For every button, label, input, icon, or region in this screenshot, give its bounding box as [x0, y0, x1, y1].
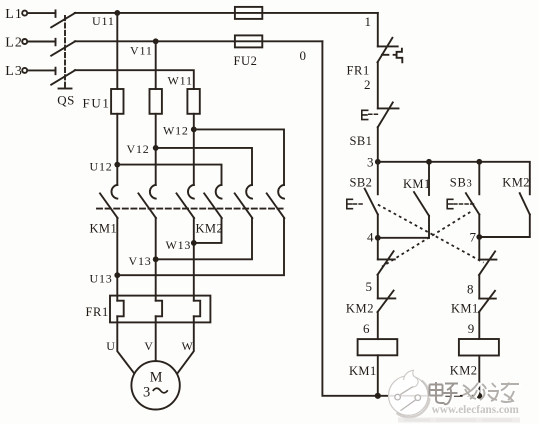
svg-text:3: 3: [367, 154, 374, 169]
svg-text:U13: U13: [90, 272, 113, 286]
svg-text:SB2: SB2: [350, 176, 373, 190]
node bottom rail junction b: [476, 393, 482, 399]
wire KM2 pole1 to W13: [194, 218, 222, 243]
button SB3 upper terminal: [478, 162, 480, 195]
relay FR1 NC contact tick: [382, 54, 389, 56]
wire U phase contact to FR: [116, 218, 118, 301]
svg-text:7: 7: [470, 230, 477, 245]
watermark url: [432, 402, 520, 417]
svg-text:1: 1: [365, 14, 372, 29]
node 7 junction: [476, 234, 482, 240]
svg-text:KM1: KM1: [403, 177, 431, 191]
svg-text:2: 2: [364, 77, 371, 92]
svg-text:V12: V12: [127, 142, 150, 156]
svg-text:W: W: [182, 339, 194, 353]
button SB2 actuator E: [347, 199, 353, 208]
button SB1 blade: [378, 102, 393, 127]
wire L1 to right rail: [75, 12, 378, 14]
wire right rail top: [377, 13, 379, 47]
node W13 junction: [191, 240, 197, 246]
wire W phase contact to FR: [193, 218, 195, 301]
relay FR1 NC contact fixed bar: [378, 45, 398, 47]
svg-text:9: 9: [468, 321, 475, 336]
svg-text:L3: L3: [5, 64, 23, 79]
wire KM2 coil to rail: [478, 356, 480, 396]
relay FR1 heater element U: [117, 301, 123, 317]
relay FR1 heater element V: [156, 301, 162, 317]
wire rail FR1 to SB1: [377, 62, 379, 108]
button SB2 upper terminal: [377, 162, 379, 195]
wire KM2 pole3 to U13: [117, 218, 284, 275]
svg-text:SB3: SB3: [450, 176, 473, 190]
button SB3 NC blade: [378, 251, 394, 275]
wire V phase fuse to contact: [155, 114, 157, 185]
node 3 junction a: [375, 159, 381, 165]
node V12 junction: [153, 145, 159, 151]
relay FR1 heater element W: [194, 301, 200, 317]
svg-text:6: 6: [363, 321, 370, 336]
button SB3 actuator E: [447, 199, 453, 208]
button SB2 NO blade: [365, 189, 378, 215]
wire L3 input: [28, 69, 56, 71]
svg-text:FR1: FR1: [86, 305, 109, 319]
contact KM1 aux NO upper terminal: [428, 162, 430, 195]
node U11 junction: [114, 10, 120, 16]
button SB2 actuator dashes: [354, 203, 365, 205]
svg-text:U12: U12: [90, 159, 113, 173]
wire U FR to motor: [117, 316, 133, 372]
svg-text:U11: U11: [92, 14, 115, 28]
switch QS linkage foot bar: [59, 88, 72, 90]
wire node 8: [478, 275, 480, 299]
svg-text:8: 8: [467, 282, 474, 297]
node bottom rail junction a: [375, 393, 381, 399]
node U12 junction: [114, 162, 120, 168]
wire U phase fuse to contact: [116, 114, 118, 185]
svg-text:W12: W12: [163, 124, 189, 138]
wire node 6: [377, 312, 379, 339]
wire node7 to NC 7-8: [478, 237, 480, 260]
svg-text:4: 4: [367, 230, 374, 245]
svg-text:FR1: FR1: [347, 64, 370, 78]
interlock dotted SB2 to right NC: [378, 205, 484, 263]
svg-text:3: 3: [143, 385, 150, 401]
svg-text:FU1: FU1: [83, 96, 111, 111]
fuse FU2a body: [235, 7, 262, 19]
wire KM2 pole2 to V13: [156, 218, 252, 259]
watermark brand glyphs: [431, 383, 521, 405]
node V13 junction: [153, 256, 159, 262]
switch QS pole 2 blade: [51, 41, 75, 55]
relay FR1 thermal actuator symbol: [394, 49, 403, 63]
contactor KM1 pole1 contact: [100, 185, 118, 218]
svg-text:KM1: KM1: [90, 221, 118, 235]
svg-text:KM1: KM1: [349, 364, 377, 378]
svg-text:SB1: SB1: [350, 134, 373, 148]
motor M 3~ circle: [131, 361, 179, 409]
switch QS pole 3 blade: [51, 70, 75, 85]
wire L2 to 0 rail: [75, 40, 323, 42]
contact KM1 NC blade: [479, 291, 495, 312]
contact KM2 NC blade: [378, 291, 394, 312]
svg-text:L1: L1: [5, 7, 23, 22]
svg-text:KM2: KM2: [346, 301, 374, 315]
node L2 terminal circle: [22, 39, 27, 44]
wire L2 input: [28, 41, 56, 43]
button SB2 NC blade: [479, 251, 495, 275]
wire V12 feed to KM2 pole2: [156, 148, 252, 185]
contactor KM2 pole2 contact: [235, 185, 253, 218]
svg-text:W13: W13: [166, 238, 192, 252]
wire W phase fuse to contact: [193, 114, 195, 185]
svg-text:KM2: KM2: [196, 221, 224, 235]
wire KM1 aux to node 4: [428, 216, 430, 238]
interlock dotted SB3 to left NC: [382, 212, 470, 267]
svg-text:www.elecfans.com: www.elecfans.com: [432, 402, 519, 416]
wire SB3 to node 7: [478, 215, 480, 238]
QS pole 1 fixed contact tick: [55, 10, 57, 17]
wire KM2 aux to node 7: [479, 215, 530, 238]
node V11 junction: [153, 38, 159, 44]
wire node 3 rail: [378, 162, 530, 195]
switch QS pole 1 blade: [51, 13, 75, 27]
QS pole 3 fixed contact tick: [55, 68, 57, 75]
node L1 terminal circle: [22, 11, 27, 16]
svg-text:FU2: FU2: [234, 54, 258, 68]
svg-text:V: V: [144, 339, 153, 353]
motor tilde wave: [153, 388, 168, 393]
wire KM1 coil to rail: [377, 355, 379, 396]
wire 0 rail: [322, 41, 479, 396]
relay FR1 heater box: [110, 296, 210, 323]
wire U12 feed to KM2 pole1: [117, 165, 221, 185]
svg-text:KM2: KM2: [502, 176, 530, 190]
wire V FR to motor: [155, 316, 157, 361]
contactor KM1 pole3 contact: [177, 185, 195, 218]
wire node 4 link: [378, 237, 429, 239]
svg-text:U: U: [106, 339, 115, 353]
wire U11 vertical drop: [116, 13, 118, 89]
svg-text:V11: V11: [130, 43, 153, 57]
button SB1 actuator dashes: [369, 113, 379, 115]
node U13 junction: [114, 272, 120, 278]
contactor KM2 pole3 contact: [267, 185, 285, 218]
svg-text:M: M: [150, 369, 163, 385]
button SB2 NC fixed bar: [479, 259, 496, 261]
node 3 junction b: [426, 159, 432, 165]
contactor KM2 pole1 contact: [204, 185, 222, 218]
button SB1 actuator E: [362, 110, 368, 119]
contact KM2 NC fixed bar: [378, 297, 396, 299]
button SB3 NC fixed bar: [378, 258, 395, 260]
button SB3 actuator dashes: [454, 203, 474, 205]
svg-text:QS: QS: [57, 92, 74, 107]
QS pole 2 fixed contact tick: [55, 39, 57, 46]
coil KM1 body: [358, 339, 398, 355]
wire V phase contact to FR: [155, 218, 157, 301]
wire node 9: [478, 312, 480, 339]
wire L1 input: [28, 12, 56, 14]
fuse FU1a body: [111, 89, 123, 114]
contactor KM1 pole2 contact: [138, 185, 156, 218]
contact KM1 NC fixed bar: [479, 298, 496, 300]
node 3 junction c: [476, 159, 482, 165]
wire L3 to W11 corner: [75, 70, 194, 89]
svg-text:0: 0: [300, 48, 307, 63]
watermark logo circle: [389, 370, 430, 417]
fuse FU1b body: [150, 89, 162, 114]
button SB3 NO blade: [466, 193, 479, 214]
button SB1 fixed bar: [378, 107, 399, 109]
wire V11 vertical drop: [155, 41, 157, 89]
svg-text:KM2: KM2: [450, 364, 478, 378]
contact bank linkage dashed: [97, 208, 284, 210]
wire node 5: [377, 275, 379, 299]
svg-text:W11: W11: [168, 74, 193, 88]
switch QS linkage dashed: [64, 16, 66, 89]
fuse FU1c body: [187, 89, 199, 114]
node W12 junction: [191, 126, 197, 132]
svg-text:V13: V13: [129, 254, 152, 268]
svg-text:5: 5: [366, 279, 373, 294]
watermark faint bottom row: [398, 418, 520, 423]
contact KM1 aux NO blade: [414, 192, 429, 216]
svg-text:L2: L2: [5, 35, 23, 50]
coil KM2 body: [459, 339, 499, 356]
wire W FR to motor: [178, 316, 194, 372]
wire SB1 to node 3: [377, 127, 379, 162]
contact KM2 aux NO blade: [520, 193, 530, 214]
wire node4 to NC 4-5: [377, 238, 379, 260]
relay FR1 NC contact blade: [378, 38, 393, 63]
svg-text:KM1: KM1: [451, 301, 479, 315]
wire SB2 to node 4: [377, 215, 379, 238]
node 4 junction: [375, 235, 381, 241]
fuse FU2b body: [235, 35, 262, 47]
node L3 terminal circle: [22, 68, 27, 73]
wire W12 feed to KM2 pole3: [194, 129, 284, 185]
